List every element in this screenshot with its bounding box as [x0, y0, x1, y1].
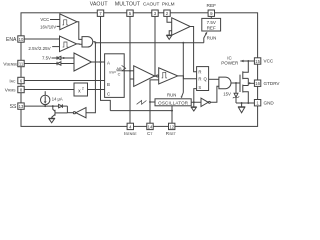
wire RUN rail: [93, 41, 95, 43]
node ground lower mosfet: [247, 102, 249, 104]
node CT: [149, 101, 151, 103]
wire ground rail: [236, 102, 254, 104]
wire pin3 CAOUT down: [154, 16, 156, 76]
label RUN oscillator: [167, 43, 183, 99]
inverter U11: [201, 98, 210, 106]
wire inverter to output AND: [210, 86, 219, 102]
node RUN: [94, 42, 96, 44]
comparator U2 ENA 2.5V/2.25V: [28, 36, 76, 52]
svg-text:16V/10V: 16V/10V: [40, 24, 56, 29]
svg-text:CAOUT: CAOUT: [143, 1, 160, 6]
wire REF block to pin9: [210, 16, 212, 18]
node SS collector: [52, 105, 54, 107]
node CAOUT: [154, 75, 156, 77]
svg-text:13: 13: [19, 104, 24, 109]
ramp waveform glyph: [137, 101, 147, 105]
svg-text:R: R: [198, 70, 201, 75]
node MULTOUT: [129, 70, 131, 72]
svg-text:SENSE: SENSE: [125, 132, 137, 135]
svg-text:14: 14: [148, 124, 153, 129]
svg-text:10: 10: [19, 37, 24, 42]
node SS current source: [44, 105, 46, 107]
wire VAOUT down to RSET rail: [101, 62, 111, 111]
pin 15 VCC: [254, 58, 273, 64]
wire peak comparator to flip-flop R: [190, 27, 196, 72]
pin 14 CT: [147, 123, 153, 136]
transistor Q3 soft start discharge: [51, 106, 67, 118]
wire VCC rail: [240, 60, 254, 62]
svg-text:MULTOUT: MULTOUT: [115, 1, 141, 7]
wire VAOUT to multiplier A: [101, 61, 105, 63]
pin 11 VSENSE: [3, 60, 24, 67]
inverter U14 soft start: [73, 108, 86, 118]
svg-text:11: 11: [19, 62, 24, 67]
svg-text:VCC: VCC: [264, 59, 274, 64]
svg-text:SENSE: SENSE: [6, 62, 18, 66]
svg-text:B: B: [107, 82, 110, 87]
svg-text:14 µA: 14 µA: [52, 97, 63, 102]
wire ISENSE pin4 up: [129, 71, 131, 123]
svg-text:REF: REF: [207, 25, 216, 30]
transistor Q2 lower driver mosfet: [243, 78, 249, 103]
node ground symbol tap: [241, 102, 243, 104]
diode D1 soft start: [59, 104, 74, 112]
wire RSET rail: [110, 110, 172, 112]
oscillator U8: [155, 99, 191, 106]
node VA plus input: [63, 57, 65, 59]
wire flip-flop Q to output AND: [209, 78, 219, 80]
IC boundary: [21, 13, 258, 127]
node GTDRV: [249, 82, 251, 84]
pin 12 RSET: [166, 123, 176, 136]
zener D4 15V: [223, 83, 239, 103]
svg-text:AC: AC: [11, 79, 16, 83]
svg-text:7.5V: 7.5V: [207, 20, 216, 25]
svg-text:VCC: VCC: [40, 17, 49, 22]
wire multiplier output: [122, 70, 134, 72]
svg-text:15V: 15V: [223, 91, 231, 96]
svg-text:2.5V/2.25V: 2.5V/2.25V: [28, 46, 50, 51]
svg-text:15: 15: [255, 59, 260, 64]
node RSET: [171, 110, 173, 112]
pin 9 REF: [206, 3, 216, 17]
voltage amp U4: [74, 53, 92, 71]
wire RSET pin to rail and oscillator: [171, 106, 173, 123]
svg-text:OSCILLATOR: OSCILLATOR: [158, 100, 189, 105]
label IC POWER with arrow: [221, 55, 243, 65]
svg-text:VAOUT: VAOUT: [90, 1, 109, 7]
svg-text:REF: REF: [206, 3, 216, 9]
pin 8 VRMS: [5, 86, 24, 93]
svg-text:ENA: ENA: [6, 37, 17, 43]
wire UVLO output to AND input: [77, 22, 82, 40]
svg-text:RUN: RUN: [207, 36, 217, 41]
svg-text:SS: SS: [10, 104, 17, 110]
svg-text:R: R: [198, 77, 201, 82]
wire ISENSE to current amp: [130, 78, 134, 80]
svg-text:2: 2: [82, 86, 84, 90]
transistor Q1 upper driver mosfet: [240, 61, 248, 92]
wire CA output to CAOUT node: [155, 75, 157, 77]
ground soft start transistor: [49, 117, 55, 123]
pin 10 ENA: [6, 36, 24, 43]
wire ENA comp output to AND input: [77, 43, 82, 45]
peak limit comparator U9: [172, 18, 191, 35]
pin 1 GND: [254, 100, 274, 106]
wire VRMS to squarer: [24, 89, 74, 91]
node VCC rail: [247, 60, 249, 62]
pin 5 MULTOUT: [115, 1, 141, 16]
pin 3 CAOUT: [143, 1, 160, 16]
svg-text:C: C: [118, 71, 121, 76]
wire VA output to VAOUT node: [92, 61, 101, 63]
squarer X2: [74, 83, 88, 96]
svg-text:16: 16: [255, 81, 260, 86]
and-gate U12 output gate: [219, 77, 231, 89]
svg-text:12: 12: [169, 124, 174, 129]
node RUN oscillator branch: [182, 42, 184, 44]
wire ENA to comparator: [24, 38, 59, 40]
wire pwm comparator to flip-flop R: [178, 76, 197, 79]
pin 16 GTDRV: [254, 80, 280, 86]
ground main: [238, 103, 245, 113]
diode D3 vsense input: [24, 62, 74, 66]
node VAOUT: [100, 61, 102, 63]
regulator U13 7.5V REF: [202, 18, 221, 31]
multiplier U5: [105, 54, 126, 98]
wire pin2 PKLM to comparator: [167, 16, 172, 22]
wire SS line: [24, 105, 58, 107]
node zener tap: [235, 82, 237, 84]
pin 13 SS: [10, 103, 25, 110]
svg-text:GND: GND: [264, 100, 275, 105]
svg-text:A: A: [107, 61, 110, 66]
wire pin5 MULTOUT down: [129, 16, 131, 70]
pin 6 IAC: [9, 77, 24, 84]
node oscillator output: [193, 101, 195, 103]
diode D2 7.5V clamp: [42, 56, 74, 61]
wire pin7 VAOUT down: [100, 16, 102, 62]
label RUN ref with arrow: [204, 32, 217, 43]
wire squarer to multiplier C: [88, 89, 105, 91]
svg-text:RMS: RMS: [8, 88, 16, 92]
svg-text:RUN: RUN: [167, 92, 176, 97]
comparator U1 VCC UVLO 16V/10V: [40, 14, 77, 30]
wire CT to oscillator: [150, 101, 155, 103]
wire oscillator output to S and inverter: [191, 89, 201, 103]
ground peak limit comparator: [166, 31, 172, 40]
pin 2 PKLM: [162, 1, 175, 16]
wire CT ramp to pwm comparator: [150, 80, 159, 123]
svg-text:S: S: [198, 85, 201, 90]
ground oscillator output node: [191, 102, 197, 111]
svg-text:POWER: POWER: [221, 60, 239, 65]
svg-text:GTDRV: GTDRV: [264, 81, 281, 86]
wire RUN down to inverter: [86, 43, 95, 113]
svg-text:AB: AB: [116, 66, 122, 71]
and-gate U3 run logic: [82, 37, 93, 47]
pin 7 VAOUT: [90, 1, 109, 16]
flip-flop U10: [197, 67, 209, 91]
wire IAC to multiplier B: [24, 80, 104, 82]
current source I1 14uA: [41, 91, 63, 106]
wire AND to driver gates: [231, 82, 240, 84]
svg-text:PKLM: PKLM: [162, 1, 175, 6]
svg-text:SET: SET: [169, 132, 176, 135]
svg-text:C: C: [107, 91, 110, 96]
pin 4 ISENSE: [124, 123, 138, 136]
svg-text:7.5V: 7.5V: [42, 56, 51, 61]
current amp U6: [134, 66, 155, 87]
svg-text:T: T: [150, 132, 152, 135]
pwm comparator U7: [157, 68, 178, 84]
wire driver output to GTDRV: [248, 82, 254, 84]
